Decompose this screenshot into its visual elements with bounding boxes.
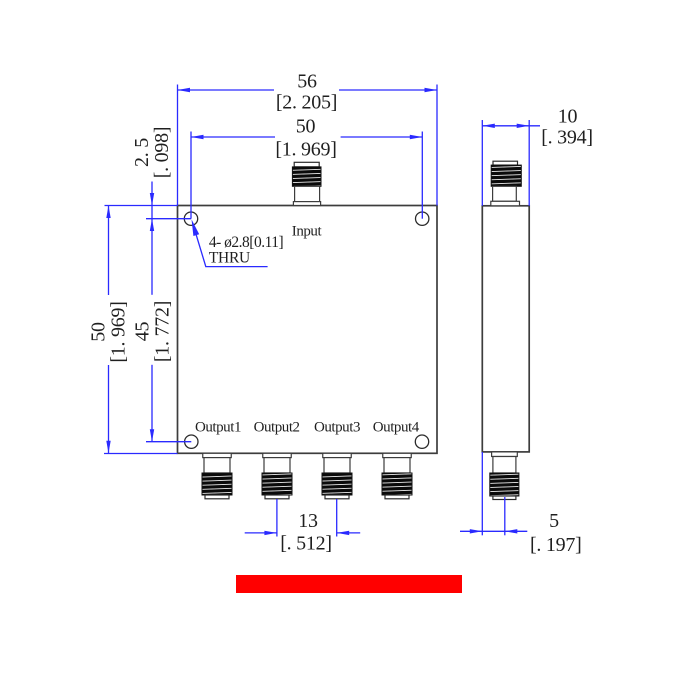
svg-text:[2. 205]: [2. 205] [276, 92, 337, 114]
svg-text:2. 5: 2. 5 [131, 138, 153, 167]
side top connector [491, 161, 522, 206]
dim 10 line [482, 125, 540, 127]
dim 10 extension lines [481, 120, 483, 206]
dim 13 extension lines [276, 499, 278, 537]
hole top-left [184, 212, 197, 225]
svg-text:Output2: Output2 [254, 420, 300, 436]
dim 50 left line [108, 206, 110, 296]
dim 13 line [245, 532, 277, 534]
front body outline [178, 206, 438, 454]
output connector 3 [322, 453, 352, 499]
dim 56 extension lines [177, 85, 179, 206]
hole bottom-left [185, 435, 198, 448]
side bottom connector [490, 452, 519, 500]
left extension line bottom hole centre [146, 441, 191, 443]
left extension line top hole centre [146, 218, 191, 220]
dim 50 line [191, 136, 275, 138]
svg-text:Input: Input [292, 224, 323, 240]
svg-text:50: 50 [296, 116, 316, 138]
svg-text:[. 098]: [. 098] [151, 127, 173, 179]
dim 10 arrows [482, 124, 495, 128]
dim 5 line [460, 530, 527, 532]
svg-text:56: 56 [297, 71, 317, 93]
left extension line bottom edge [104, 453, 178, 455]
dim 50 left arrows [106, 206, 110, 219]
side body outline [482, 206, 529, 452]
hole top-right [416, 212, 429, 225]
svg-text:5: 5 [549, 510, 559, 532]
svg-text:13: 13 [298, 510, 318, 532]
dim 45 text [132, 301, 174, 362]
leader 4-dia2.8 THRU [192, 219, 284, 266]
dim 5 extension lines [481, 452, 483, 535]
red bar [236, 575, 462, 593]
svg-text:[. 394]: [. 394] [541, 127, 593, 149]
svg-text:50: 50 [88, 322, 110, 342]
svg-text:Output1: Output1 [195, 420, 241, 436]
svg-text:[. 512]: [. 512] [280, 533, 332, 555]
dim 45 arrow [150, 429, 154, 442]
dim 2.5 arrows [150, 193, 154, 206]
dim 2.5 text [131, 127, 173, 179]
svg-text:Output4: Output4 [373, 420, 420, 436]
output connector 4 [382, 453, 412, 499]
dim 50 arrows [191, 135, 204, 139]
dim 50 extension lines [190, 132, 192, 219]
output connector 1 [202, 453, 232, 499]
dim 13 arrows [264, 531, 277, 535]
svg-text:[1. 772]: [1. 772] [152, 301, 174, 362]
svg-text:[1. 969]: [1. 969] [275, 139, 336, 161]
dim 50 left text [88, 301, 130, 362]
dim 2.5 and 45 line [151, 182, 153, 295]
svg-text:[1. 969]: [1. 969] [108, 301, 130, 362]
input connector [292, 162, 321, 205]
svg-text:10: 10 [558, 106, 578, 128]
output connector 2 [262, 453, 292, 499]
svg-text:Output3: Output3 [314, 420, 360, 436]
hole bottom-right [415, 435, 428, 448]
left extension line top edge [105, 205, 178, 207]
svg-text:4- ø2.8[0.11]: 4- ø2.8[0.11] [209, 234, 284, 251]
svg-text:[. 197]: [. 197] [530, 534, 582, 556]
dim 56 line [178, 89, 275, 91]
svg-text:45: 45 [132, 322, 154, 342]
svg-text:THRU: THRU [209, 250, 250, 267]
dim 5 arrows [470, 529, 483, 533]
dim 56 arrows [178, 88, 191, 92]
